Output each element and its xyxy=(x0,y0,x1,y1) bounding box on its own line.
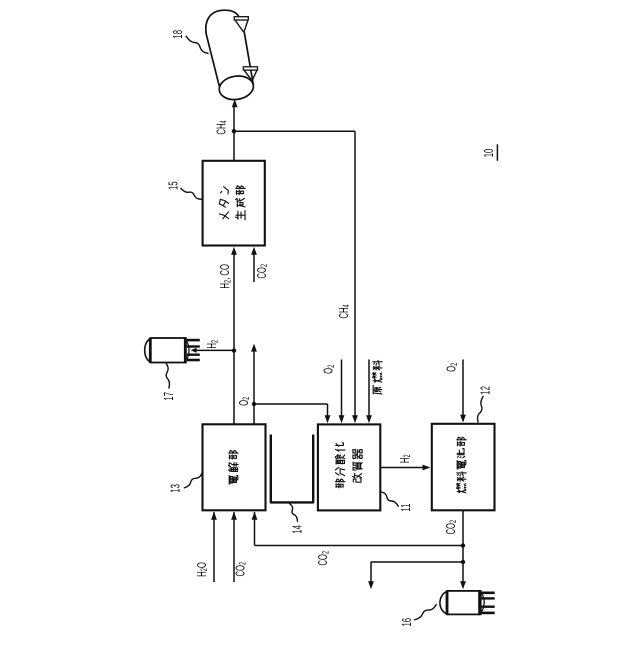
wire: O2 from box 13 top to junction, x=254 xyxy=(253,404,255,424)
junction dot on CH4 line xyxy=(232,129,236,133)
wire: CO2 recycle horizontal from junction to below box 13, y=545.5 xyxy=(255,545,464,547)
tank 16 left dome xyxy=(440,592,447,615)
tank 17 valve cap arc xyxy=(187,341,189,359)
tank 17 left dome xyxy=(145,339,151,362)
wire: CO2 vent drop with open arrow, x=371 xyxy=(370,562,372,584)
svg-text:O2: O2 xyxy=(238,397,252,406)
tank 18 lower nozzle xyxy=(243,67,257,70)
svg-text:14: 14 xyxy=(291,525,304,534)
wire: main H2/CO riser from electrolysis box 13 to methanation box 15, x=234 xyxy=(233,252,235,424)
svg-text:11: 11 xyxy=(400,503,413,511)
wire: CO2 input into box 13, x=234 xyxy=(233,512,235,582)
wire: H2 line from tank 17 to riser junction xyxy=(195,349,234,351)
svg-text:CH4: CH4 xyxy=(215,120,229,134)
label genmairyou (raw fuel) kanji column xyxy=(373,385,382,394)
svg-text:CO2: CO2 xyxy=(445,520,459,535)
box 13 electrolysis unit (denkaibu) xyxy=(203,424,266,510)
tank 18 bottom ellipse xyxy=(217,74,255,102)
junction dot CO2 vent branch xyxy=(461,560,465,564)
tank 16 left flange bar xyxy=(446,591,449,615)
box 11 partial oxidation reformer (bubun sanka kaishitsuki) xyxy=(318,424,380,510)
svg-text:H2, CO: H2, CO xyxy=(219,264,233,289)
svg-text:CO2: CO2 xyxy=(317,551,331,566)
arrowhead up into tank 18 xyxy=(232,99,238,107)
tank 18 upper nozzle xyxy=(234,17,248,20)
element 14 open-top tank between box 13 and box 11 xyxy=(271,435,313,503)
wire: O2 vent upward with open arrow xyxy=(253,349,255,404)
svg-text:17: 17 xyxy=(163,392,176,401)
wire: CO2 from box 12 bottom down to tank 16, x=463 xyxy=(462,510,464,584)
junction dot CO2 recycle line xyxy=(461,543,465,547)
wire: raw fuel input into box 11, x=369 xyxy=(368,360,370,419)
tank 16 fins xyxy=(482,591,495,594)
tank 17 right flange bar xyxy=(184,337,187,363)
arrowhead into box 15 bottom (H2,CO) xyxy=(231,247,237,255)
tank 17 left flange bar xyxy=(149,338,152,363)
tank 18 tilted cylinder body xyxy=(206,10,239,86)
wire: CO2 short input arrow into box 15 bottom, x=254 xyxy=(253,252,255,282)
svg-text:12: 12 xyxy=(479,386,492,395)
wire: CH4 vertical drop to reformer box 11, x=355 xyxy=(354,131,356,418)
svg-text:O2: O2 xyxy=(445,363,459,372)
svg-text:10: 10 xyxy=(483,149,496,158)
arrowhead CH4 into box 11 top xyxy=(352,415,358,423)
wire: O2 input into box 12 top, x=463 xyxy=(462,360,464,418)
tank 16 right flange bar xyxy=(479,590,482,615)
wire: CH4 horizontal branch y=131 xyxy=(234,130,355,132)
box 12 fuel cell unit (nenryou denchibu) xyxy=(432,424,495,511)
box 15 methane generation unit (metan seiseibu) xyxy=(203,161,265,246)
svg-text:CO2: CO2 xyxy=(256,264,270,279)
wire: CH4 line from box 15 top to tank 18, x=234 xyxy=(233,105,235,160)
svg-text:O2: O2 xyxy=(322,365,336,374)
wire: H2 from box 11 to fuel cell box 12, y=467.5 xyxy=(381,467,426,469)
tank 16 CO2 storage cylinder body xyxy=(447,591,479,615)
svg-text:16: 16 xyxy=(401,618,414,627)
wire: CO2 recycle riser into box 13 bottom, x=254.5 xyxy=(254,512,256,546)
wire: external O2 input into box 11, x=341.5 xyxy=(341,360,343,419)
svg-text:H2: H2 xyxy=(399,454,413,463)
wire: O2 horizontal branch to box 11, y=404 xyxy=(254,403,328,405)
tank 16 valve cap arc xyxy=(482,593,485,611)
tank 17 H2 storage cylinder body xyxy=(151,338,185,363)
wire: H2O input into box 13, x=214 xyxy=(213,512,215,582)
svg-text:H2O: H2O xyxy=(196,562,210,577)
svg-text:CH4: CH4 xyxy=(338,304,352,318)
junction dot O2 branch xyxy=(252,402,256,406)
arrowhead into box 15 bottom (CO2) xyxy=(251,247,257,255)
arrowhead pointing left into tank 17 valve (H2) xyxy=(191,348,197,353)
tank 17 fins xyxy=(187,339,200,342)
svg-text:CO2: CO2 xyxy=(234,562,248,577)
wire: O2 drop into box 11 top xyxy=(327,404,329,418)
junction dot H2 line meets riser xyxy=(232,348,236,352)
wire: CO2 vent branch from junction, y=562 xyxy=(371,561,463,563)
svg-text:18: 18 xyxy=(172,30,185,39)
svg-text:15: 15 xyxy=(167,181,180,190)
svg-text:13: 13 xyxy=(169,484,182,493)
svg-text:H2: H2 xyxy=(206,340,220,349)
